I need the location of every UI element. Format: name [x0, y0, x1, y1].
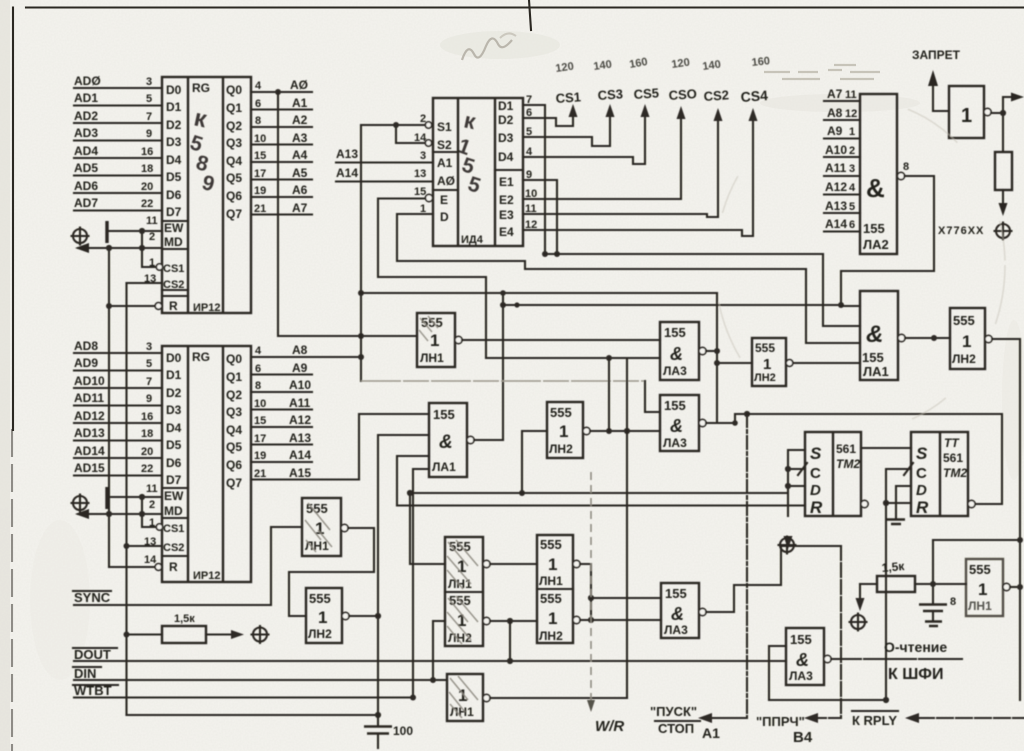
flip-flop DD14 561ТМ2: [805, 432, 861, 517]
svg-text:11: 11: [146, 483, 158, 495]
svg-text:155: 155: [665, 586, 687, 601]
resistor R1 1.5k: [124, 613, 269, 643]
svg-text:"ПУСК": "ПУСК": [650, 704, 697, 719]
svg-text:A7: A7: [827, 87, 843, 101]
svg-text:CS5: CS5: [633, 85, 659, 102]
pin bubble DD18a: [483, 560, 490, 567]
svg-text:11: 11: [845, 89, 857, 101]
pin 8 bubble DD4: [897, 172, 904, 179]
wire bus tap down to DD18a input: [410, 493, 445, 564]
wire R2 down: [1002, 190, 1004, 203]
svg-text:A9: A9: [292, 361, 308, 375]
svg-text:15: 15: [254, 150, 266, 162]
wire to DD9 input2: [486, 357, 660, 359]
svg-text:555: 555: [550, 405, 572, 420]
svg-text:RG: RG: [192, 81, 210, 95]
svg-text:155: 155: [790, 632, 812, 647]
svg-text:19: 19: [254, 450, 266, 462]
svg-text:SYNC: SYNC: [74, 590, 111, 605]
svg-text:Q5: Q5: [226, 440, 242, 454]
svg-text:16: 16: [141, 411, 153, 423]
svg-text:MD: MD: [164, 235, 183, 249]
svg-text:СТОП: СТОП: [658, 721, 694, 736]
svg-text:&: &: [670, 416, 683, 436]
svg-text:Q5: Q5: [226, 171, 242, 185]
svg-text:CS3: CS3: [597, 86, 623, 103]
wire EW pin11: [109, 230, 162, 232]
power symbol right: [995, 223, 1012, 240]
svg-text:S: S: [810, 444, 822, 463]
inverter DD5 (1): [949, 86, 984, 138]
wire E4 to CS4: [523, 112, 753, 236]
wire DD6 out to DD9 input1: [462, 339, 660, 341]
arrow CS0: [677, 106, 686, 119]
pin bubble DD17: [342, 612, 349, 619]
svg-text:ИД4: ИД4: [461, 234, 484, 246]
svg-text:19: 19: [254, 185, 266, 197]
svg-text:555: 555: [309, 591, 331, 606]
svg-text:555: 555: [969, 562, 991, 577]
wire DD10 input from bus: [522, 431, 547, 493]
svg-text:5: 5: [146, 93, 152, 105]
svg-text:1: 1: [548, 555, 557, 574]
power symbol below DD14: [779, 537, 796, 554]
svg-text:160: 160: [751, 55, 771, 69]
svg-text:D: D: [810, 482, 821, 499]
svg-text:AD15: AD15: [74, 461, 105, 475]
svg-text:A13: A13: [289, 431, 311, 445]
svg-text:CS1: CS1: [163, 263, 184, 275]
svg-text:D1: D1: [166, 100, 182, 114]
svg-text:CS4: CS4: [740, 87, 768, 105]
svg-text:A14: A14: [825, 217, 847, 231]
wire SYNC: [74, 527, 302, 605]
svg-text:AD5: AD5: [74, 161, 98, 175]
svg-text:AD2: AD2: [74, 109, 98, 123]
svg-text:E: E: [440, 193, 448, 207]
svg-text:CS1: CS1: [163, 523, 184, 535]
handwritten K589 on DD1: [187, 104, 217, 196]
svg-text:16: 16: [141, 146, 153, 158]
svg-text:К ШФИ: К ШФИ: [888, 666, 943, 683]
svg-text:7: 7: [146, 376, 152, 388]
svg-text:C: C: [810, 465, 821, 482]
arrow CS5: [641, 104, 650, 117]
svg-text:AD12: AD12: [74, 409, 105, 423]
NAND DD4 155ЛА2 (8-input): [860, 94, 897, 254]
wire MD pin2 DD2 with arrow: [78, 513, 162, 515]
inverter DD13 555ЛН2 (right): [950, 308, 985, 369]
svg-text:561: 561: [943, 451, 963, 465]
svg-text:140: 140: [593, 59, 613, 73]
svg-text:AD4: AD4: [74, 144, 98, 158]
wire DD14 to DD15 top link: [861, 447, 911, 449]
svg-text:A13: A13: [825, 199, 847, 213]
pin bubble DD11: [786, 360, 793, 367]
svg-text:E1: E1: [499, 175, 514, 189]
NAND DD8 155ЛА1 (big): [860, 291, 898, 380]
arrow left on MD: [75, 243, 89, 253]
svg-text:Q1: Q1: [226, 370, 242, 384]
wire DD19b out to DD20 input2: [580, 619, 661, 621]
svg-text:9: 9: [146, 128, 152, 140]
svg-text:ЗАПРЕТ: ЗАПРЕТ: [912, 48, 961, 62]
inverter DD23 555ЛН1 (bottom right): [966, 559, 1003, 616]
pencil squiggle top center: [462, 38, 512, 60]
wire DD9 out to DD11: [706, 293, 752, 423]
svg-text:1: 1: [961, 105, 972, 127]
svg-text:12: 12: [845, 108, 857, 120]
scan circle artifact: [715, 100, 1005, 430]
svg-text:5: 5: [849, 201, 855, 213]
wire DD22 input1: [769, 646, 786, 700]
svg-text:R: R: [916, 498, 929, 517]
svg-text:R: R: [169, 560, 178, 574]
svg-text:D2: D2: [166, 118, 182, 132]
svg-text:A2: A2: [292, 113, 308, 127]
svg-text:155: 155: [664, 325, 686, 340]
svg-text:A3: A3: [292, 131, 308, 145]
svg-text:D4: D4: [166, 153, 182, 167]
svg-text:R: R: [169, 299, 178, 313]
svg-text:1: 1: [430, 331, 439, 350]
wire DD12 input1 from faint line: [645, 381, 660, 412]
junction on A0 drop: [358, 333, 364, 339]
pin bubble DD14: [861, 500, 868, 507]
svg-text:140: 140: [702, 59, 722, 73]
pin bubble DD19b: [573, 616, 580, 623]
pin bubble DD12: [699, 419, 706, 426]
wire C input DD15 from below: [886, 469, 911, 700]
svg-text:D3: D3: [166, 403, 182, 417]
svg-text:120: 120: [671, 57, 691, 71]
svg-text:ЛН2: ЛН2: [754, 372, 776, 384]
svg-text:ТМ2: ТМ2: [943, 466, 967, 480]
NAND DD9 155ЛА3 (top): [660, 322, 699, 380]
pin bubble DD8: [898, 334, 905, 341]
svg-text:6: 6: [849, 219, 855, 231]
wire ZAPRET arrow: [933, 86, 949, 111]
wire faint y382: [361, 380, 645, 382]
svg-text:Q2: Q2: [226, 119, 242, 133]
pin bubble DD16: [341, 524, 348, 531]
svg-text:D3: D3: [498, 131, 514, 145]
wire WTBT: [74, 696, 413, 698]
flip-flop DD15 561ТМ2: [911, 432, 968, 517]
wire rail A y254: [545, 253, 823, 255]
svg-text:Q4: Q4: [226, 154, 242, 168]
svg-text:EW: EW: [164, 221, 184, 235]
wire rail B to DD8 input3: [806, 269, 860, 343]
svg-text:A11: A11: [289, 396, 311, 410]
svg-text:Q3: Q3: [226, 405, 242, 419]
svg-text:AD1: AD1: [74, 91, 98, 105]
wire DD23 out: [1010, 586, 1020, 588]
svg-text:D2: D2: [498, 113, 514, 127]
wire DOUT: [74, 660, 786, 662]
pin R bubble DD1: [155, 303, 162, 310]
wire E2 to CS0: [523, 110, 681, 199]
wire D2 to CS1: [523, 108, 573, 126]
pin R bubble DD2: [155, 564, 162, 571]
wire R bus y505: [397, 504, 805, 506]
svg-text:15: 15: [254, 415, 266, 427]
pencil smear right top: [764, 65, 880, 79]
svg-text:4: 4: [255, 345, 262, 357]
svg-text:155: 155: [863, 221, 885, 236]
svg-text:&: &: [866, 173, 885, 203]
wire MD pin2 with arrow: [78, 247, 162, 249]
svg-text:CSO: CSO: [668, 86, 697, 103]
pin bubble DD13: [985, 335, 992, 342]
svg-text:155: 155: [433, 407, 455, 422]
wire EW-MD-CS1 bracket DD2: [142, 497, 158, 527]
svg-text:D0: D0: [166, 351, 182, 365]
svg-text:ЛН2: ЛН2: [308, 627, 332, 641]
svg-text:A4: A4: [292, 148, 308, 162]
svg-text:ЛА3: ЛА3: [663, 436, 687, 450]
wire y414 to FF2 output: [747, 414, 1002, 504]
svg-text:A1: A1: [292, 96, 308, 110]
svg-text:2: 2: [149, 499, 155, 511]
inverter pair DD19 555ЛН1/ЛН2: [537, 535, 573, 643]
svg-text:ЛА1: ЛА1: [863, 364, 889, 379]
wire CS2 DD2 to bus: [127, 545, 163, 547]
svg-text:EW: EW: [164, 489, 184, 503]
svg-text:A8: A8: [292, 343, 308, 357]
svg-text:DIN: DIN: [74, 666, 96, 681]
svg-text:RG: RG: [192, 350, 210, 364]
svg-text:3: 3: [146, 76, 152, 88]
svg-text:ЛА1: ЛА1: [432, 460, 456, 474]
wire EW pin11 DD2: [109, 496, 162, 498]
svg-text:555: 555: [540, 591, 562, 606]
svg-text:D1: D1: [166, 368, 182, 382]
handwritten pencil numbers above CS nets: [555, 55, 771, 75]
pin S1 bubble: [425, 122, 431, 128]
svg-text:20: 20: [141, 181, 153, 193]
wires A7..A14 into DD4: [824, 101, 860, 232]
svg-text:ЛА2: ЛА2: [863, 237, 889, 252]
svg-text:3: 3: [849, 163, 855, 175]
svg-text:1: 1: [849, 126, 855, 138]
svg-text:18: 18: [141, 163, 153, 175]
wire AD8..AD15 to DD2: [74, 353, 162, 476]
svg-text:1: 1: [318, 608, 327, 627]
svg-text:D5: D5: [166, 438, 182, 452]
svg-text:Q3: Q3: [226, 136, 242, 150]
pin numbers DD2 inputs: [141, 341, 158, 566]
svg-text:DOUT: DOUT: [74, 647, 111, 662]
pin CS1 bubble DD2: [156, 524, 162, 530]
pin numbers DD1 outputs: [254, 80, 266, 215]
pin bubble DD22: [824, 655, 831, 662]
svg-text:D7: D7: [166, 473, 182, 487]
W/R dashed probe: [590, 472, 592, 702]
svg-text:1: 1: [559, 422, 568, 441]
svg-text:D2: D2: [166, 386, 182, 400]
arrow right top corner: [1011, 93, 1024, 102]
svg-text:Q6: Q6: [226, 189, 242, 203]
svg-text:ЛН1: ЛН1: [420, 351, 444, 365]
svg-text:MD: MD: [164, 504, 183, 518]
svg-text:AD9: AD9: [74, 356, 98, 370]
svg-text:&: &: [796, 650, 809, 670]
svg-text:1,5к: 1,5к: [174, 613, 195, 625]
svg-text:ТМ2: ТМ2: [836, 457, 860, 471]
wire E1 out down: [523, 180, 557, 254]
wire S net long vertical: [360, 125, 362, 381]
wire S1/S2 net: [361, 125, 425, 143]
svg-text:W/R: W/R: [595, 718, 624, 735]
arrow to A1 bottom: [710, 716, 747, 718]
wire cap top to right edge: [933, 539, 1020, 541]
svg-text:К RPLY: К RPLY: [852, 713, 897, 728]
svg-text:ЛА3: ЛА3: [664, 623, 688, 637]
junction A0: [275, 89, 281, 95]
svg-text:CS2: CS2: [163, 279, 184, 291]
svg-text:1: 1: [763, 356, 771, 373]
svg-text:ЛН2: ЛН2: [539, 629, 563, 643]
svg-text:В4: В4: [793, 729, 813, 746]
svg-text:&: &: [671, 604, 684, 624]
wire A14 to pin13: [336, 180, 433, 182]
power symbol DD2: [72, 495, 89, 512]
svg-text:17: 17: [254, 433, 266, 445]
svg-text:D0: D0: [166, 83, 182, 97]
capacitor C2: [919, 540, 956, 626]
svg-text:A5: A5: [292, 166, 308, 180]
sheet frame left line: [12, 8, 14, 431]
wire DD1 outputs A0..A7: [251, 92, 312, 215]
wire DD20 out to FF region: [706, 546, 841, 612]
wire long vertical bus from CS2 down: [125, 283, 127, 715]
wire DD2 outputs A8..A15: [251, 357, 361, 480]
svg-text:A15: A15: [289, 466, 311, 480]
svg-text:E3: E3: [499, 208, 514, 222]
svg-text:D1: D1: [498, 99, 514, 113]
svg-text:ЛН1: ЛН1: [305, 539, 329, 553]
wire rail y305 to DD8 input1: [503, 304, 841, 306]
arrow down to power DD14: [784, 536, 793, 549]
svg-text:D7: D7: [166, 205, 182, 219]
wire junction drop to DOUT: [509, 621, 511, 661]
arrow CS1: [569, 104, 578, 117]
svg-text:Q2: Q2: [226, 388, 242, 402]
svg-text:155: 155: [862, 350, 884, 365]
pin numbers DD1 inputs: [141, 76, 158, 285]
svg-text:14: 14: [144, 554, 157, 566]
svg-text:D: D: [440, 210, 449, 224]
svg-text:AD3: AD3: [74, 126, 98, 140]
wire DD21 out to v627: [490, 697, 627, 699]
wire bus y493: [413, 492, 786, 494]
wire E net: [378, 199, 486, 359]
pin bubble DD19a: [573, 560, 580, 567]
decoder DD3 К155ИД4 (box): [433, 98, 523, 246]
svg-text:AD13: AD13: [74, 426, 105, 440]
svg-text:AD10: AD10: [74, 374, 105, 388]
pin bubble DD7: [467, 436, 474, 443]
wire S/C/D bus left of DD14: [788, 450, 805, 516]
arrow down R2: [999, 203, 1008, 216]
wire D3 to CS3: [523, 108, 610, 146]
svg-text:&: &: [866, 321, 883, 348]
svg-text:A12: A12: [289, 413, 311, 427]
svg-text:ИР12: ИР12: [193, 570, 220, 582]
svg-text:S: S: [916, 444, 928, 463]
svg-text:D4: D4: [498, 150, 514, 164]
register DD1 MP12 (box): [162, 77, 251, 314]
svg-text:AD14: AD14: [74, 444, 105, 458]
svg-text:D4: D4: [166, 421, 182, 435]
sheet frame top line: [26, 6, 1024, 8]
NAND DD12 155ЛА3 (second): [660, 395, 699, 451]
svg-text:A10: A10: [289, 378, 311, 392]
wire DD7 input4 to bus: [413, 469, 429, 698]
wire DD18b out to DD19b: [490, 620, 537, 622]
svg-text:AD11: AD11: [74, 391, 104, 405]
arrow left on MD DD2: [75, 509, 89, 519]
pin bubble DD10: [583, 427, 590, 434]
svg-text:D3: D3: [166, 135, 182, 149]
wire D1 out down: [523, 105, 545, 254]
wire to DD20 input1: [591, 597, 661, 599]
svg-text:AØ: AØ: [290, 78, 308, 92]
pin numbers DD3 right: [525, 94, 537, 231]
svg-text:3: 3: [420, 150, 426, 162]
svg-text:1: 1: [548, 609, 557, 628]
pin bubble DD21: [483, 694, 490, 701]
svg-text:A6: A6: [292, 183, 308, 197]
svg-text:S1: S1: [437, 120, 452, 134]
svg-text:6: 6: [255, 363, 261, 375]
connector bar tick DD2: [105, 487, 108, 509]
svg-text:А13: А13: [336, 147, 358, 161]
svg-text:4: 4: [255, 80, 262, 92]
svg-text:5: 5: [146, 358, 152, 370]
handwritten K155 on DD3: [455, 107, 484, 198]
svg-text:10: 10: [254, 133, 266, 145]
svg-text:555: 555: [953, 313, 975, 328]
svg-text:7: 7: [146, 111, 152, 123]
svg-text:15: 15: [414, 186, 426, 198]
wire DD12 out to A1 loop: [706, 414, 747, 423]
pin E bubble: [425, 194, 432, 201]
svg-text:A14: A14: [289, 448, 311, 462]
svg-text:D5: D5: [166, 170, 182, 184]
svg-text:10: 10: [254, 398, 266, 410]
wire EW-MD-CS1 bracket: [142, 231, 158, 267]
wire D4 to CS5: [523, 108, 645, 164]
inverter pair DD18 555ЛН1/ЛН2 (hatched): [445, 537, 483, 646]
svg-text:ЛА3: ЛА3: [789, 669, 813, 683]
svg-text:&: &: [439, 432, 453, 453]
pin numbers DD3 left: [414, 113, 427, 215]
fold mark top center: [529, 0, 531, 30]
svg-text:2: 2: [149, 231, 155, 243]
arrow CS4: [749, 108, 758, 121]
svg-text:E2: E2: [499, 193, 514, 207]
pin numbers DD2 outputs: [254, 345, 266, 480]
svg-text:Q0: Q0: [226, 352, 242, 366]
wire K RPLY arrow: [918, 717, 1024, 719]
svg-text:22: 22: [141, 463, 153, 475]
wire DD17 out down to bus: [349, 615, 378, 617]
svg-text:A9: A9: [827, 124, 843, 138]
svg-text:D: D: [916, 482, 927, 499]
inverter DD10 555ЛН2 (mid): [547, 402, 583, 458]
